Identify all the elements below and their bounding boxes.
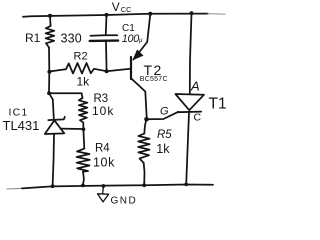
svg-text:V: V — [112, 0, 120, 14]
svg-text:BC557C: BC557C — [140, 76, 168, 83]
svg-text:GND: GND — [111, 195, 138, 206]
svg-text:1k: 1k — [156, 142, 170, 156]
svg-text:10k: 10k — [93, 155, 115, 169]
svg-text:R1: R1 — [25, 31, 41, 45]
svg-text:330: 330 — [61, 31, 82, 45]
svg-text:CC: CC — [121, 5, 132, 14]
svg-text:IC1: IC1 — [9, 107, 29, 119]
svg-text:1k: 1k — [77, 75, 91, 89]
svg-text:T1: T1 — [209, 95, 227, 112]
svg-text:G: G — [160, 106, 169, 118]
svg-text:TL431: TL431 — [3, 118, 40, 133]
svg-text:100µ: 100µ — [122, 33, 143, 45]
svg-text:R2: R2 — [74, 51, 88, 63]
svg-text:R5: R5 — [157, 129, 172, 141]
svg-text:10k: 10k — [92, 104, 114, 118]
svg-text:A: A — [190, 79, 200, 94]
svg-text:C: C — [194, 111, 202, 123]
svg-text:R4: R4 — [95, 143, 110, 155]
